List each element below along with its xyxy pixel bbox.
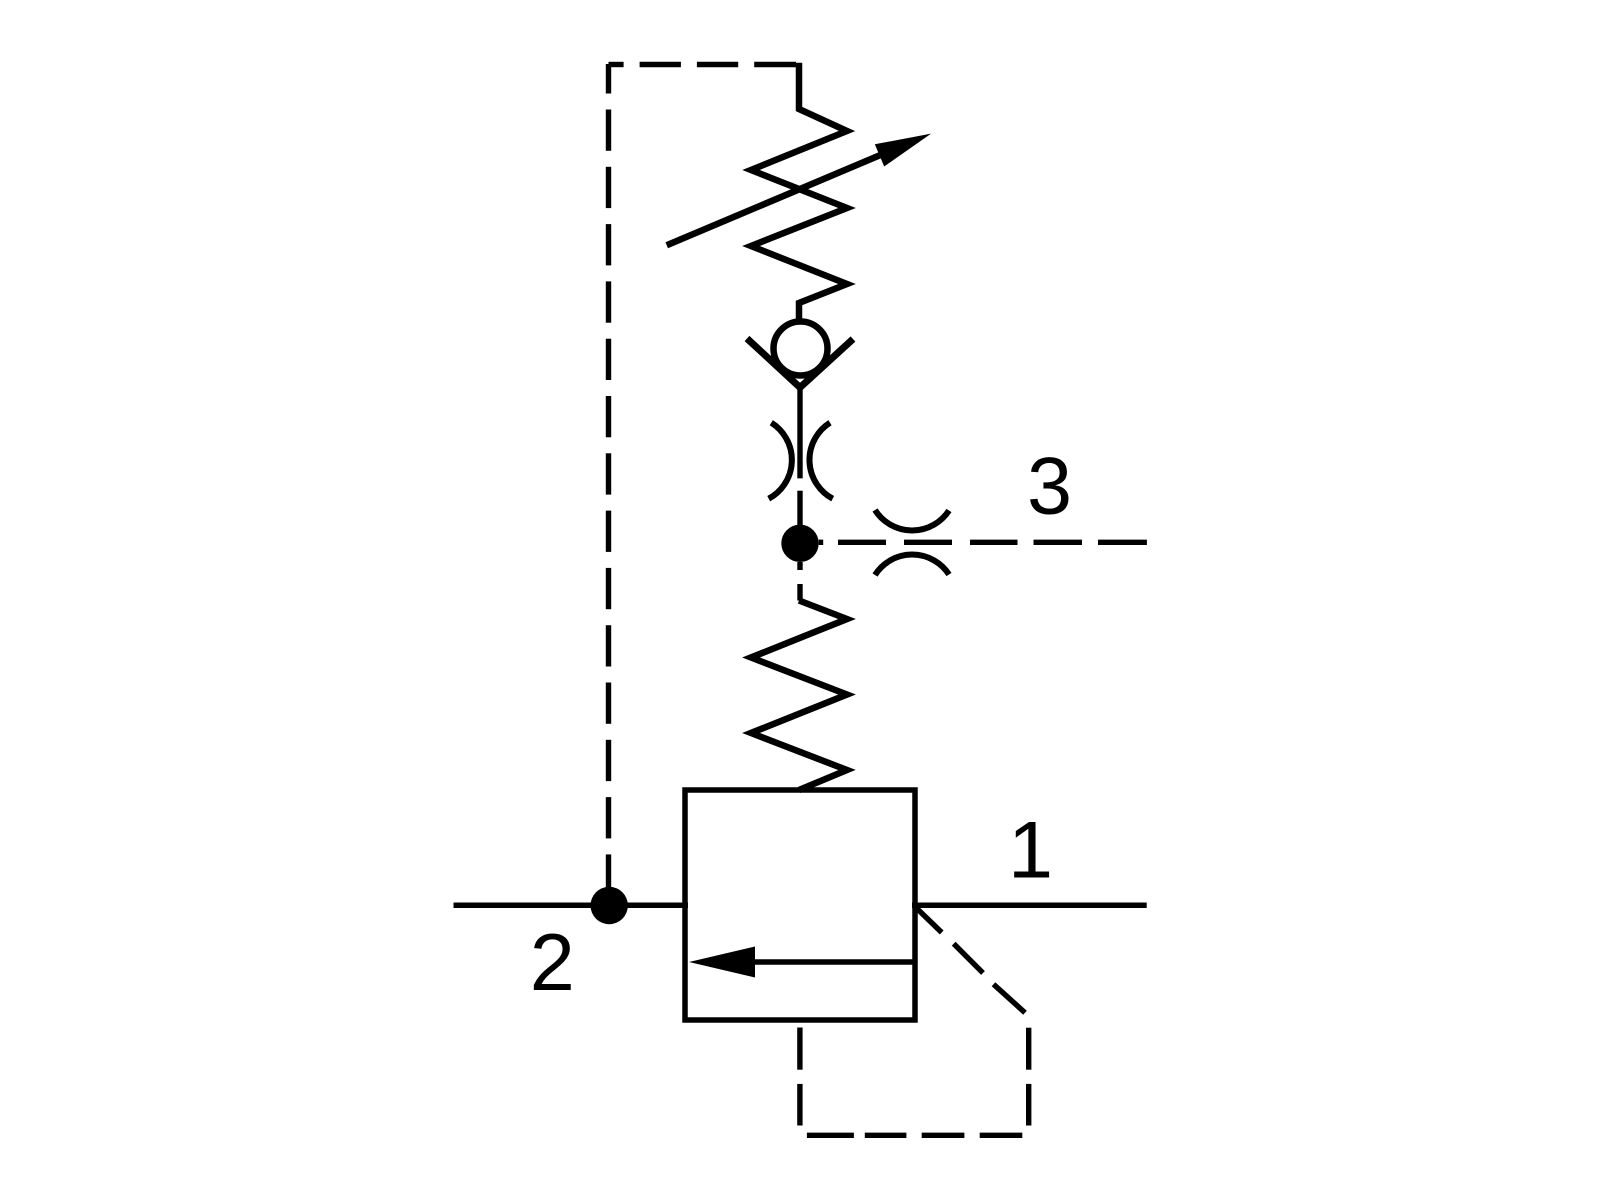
wire: pilot dashed line top horizontal run	[609, 62, 797, 67]
arrow: adjustment arrow through spring	[667, 134, 931, 246]
wire: drain dashed left vertical to valve bottom	[797, 1028, 802, 1126]
spring: adjustable spring (zigzag) top	[751, 63, 847, 323]
valve body (square envelope)	[685, 790, 915, 1020]
wire: dash above node	[797, 491, 802, 525]
arrow: flow path arrow inside valve body	[689, 947, 915, 978]
node: junction dot at port 3 branch	[781, 525, 818, 562]
wire: pilot dashed line left vertical run	[606, 64, 611, 887]
wire: drain dashed diagonal from port 1 corner	[916, 908, 1025, 1013]
spring: main spool spring (zigzag) lower	[751, 601, 847, 791]
check valve ball (circle)	[774, 322, 828, 376]
wire: drain dashed right vertical	[1026, 1028, 1031, 1126]
orifice (vertical flow restriction)	[769, 423, 833, 499]
svg-text:2: 2	[530, 918, 575, 1008]
svg-text:3: 3	[1027, 441, 1072, 531]
wire: port 3 dashed line	[819, 540, 1147, 545]
wire: port 2 line (left)	[454, 902, 689, 908]
check valve seat (V)	[747, 339, 853, 388]
wire: vertical line seat to node (solid part)	[797, 384, 802, 478]
wire: dashes node to spring	[797, 562, 802, 601]
wire: drain dashed bottom horizontal	[807, 1133, 1022, 1138]
orifice (port 3 restriction)	[875, 510, 949, 575]
node: junction dot at port 2	[591, 887, 628, 924]
wire: port 1 line (right)	[912, 902, 1147, 908]
svg-text:1: 1	[1008, 806, 1053, 896]
